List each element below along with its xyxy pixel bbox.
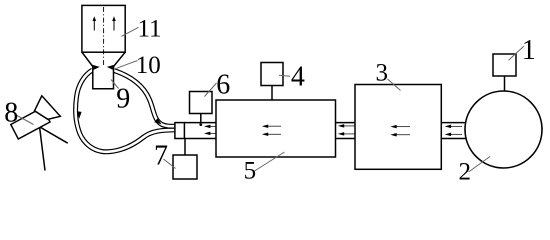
hopper up arrow right <box>112 16 116 30</box>
hose right (from tube 9 to pipe fitting) <box>114 71 176 127</box>
hopper 11 <box>82 5 125 52</box>
connector box 7 to pipe <box>184 139 186 156</box>
leader line 2 <box>469 157 491 173</box>
connector box 6 to pipe <box>200 114 202 123</box>
box 3 <box>355 85 441 170</box>
leader line 6 <box>205 83 217 97</box>
arrows between box 3 and separator 2 <box>445 125 462 136</box>
pipe bottom line segment box 3 to separator 2 <box>441 138 466 140</box>
box 1 <box>493 54 516 76</box>
leader line 7 <box>164 159 176 169</box>
svg-text:6: 6 <box>216 70 230 101</box>
pipe top line segment box 3 to separator 2 <box>441 122 466 124</box>
leader line 10 <box>117 61 138 69</box>
camera 8 body <box>11 108 50 140</box>
box 6 <box>190 92 213 114</box>
svg-text:11: 11 <box>137 16 161 43</box>
tube mouth arrow right <box>107 65 115 70</box>
leader line 9 <box>111 80 119 89</box>
arrows between box 5 and box 3 <box>338 124 355 135</box>
svg-text:4: 4 <box>291 62 305 93</box>
leader line 5 <box>255 152 285 171</box>
leader line 3 <box>388 79 401 91</box>
camera 8 tripod leg right <box>39 127 68 144</box>
svg-text:7: 7 <box>154 141 168 172</box>
tube 9 <box>93 66 114 89</box>
separator circle 2 <box>465 91 542 168</box>
svg-text:3: 3 <box>375 59 388 86</box>
hopper up arrow left <box>93 16 97 30</box>
pipe bottom line segment fitting to box 5 <box>184 138 216 140</box>
funnel 10 <box>82 52 125 66</box>
leader line 8 <box>17 116 34 125</box>
camera 8 tripod leg down <box>40 127 46 171</box>
junction dot box 6 line <box>199 123 202 126</box>
box 4 <box>261 63 283 86</box>
box 7 <box>173 155 197 179</box>
svg-text:5: 5 <box>244 158 257 185</box>
pipe top line segment fitting to box 5 <box>184 122 216 124</box>
connector box 1 to circle 2 <box>504 76 506 91</box>
svg-text:8: 8 <box>4 98 18 129</box>
leader line 11 <box>122 27 139 36</box>
svg-text:10: 10 <box>136 52 161 79</box>
box 5 <box>216 100 336 157</box>
leader line 1 <box>509 46 524 60</box>
camera 8 viewfinder <box>35 96 61 120</box>
leader line 4 <box>279 74 290 77</box>
hose right flow arrowhead <box>154 118 161 124</box>
svg-text:2: 2 <box>459 159 472 184</box>
arrows inside box 3 <box>390 125 410 137</box>
svg-text:1: 1 <box>522 35 536 66</box>
pipe top line segment box 5 to box 3 <box>336 122 356 124</box>
hopper center dash line <box>103 7 105 87</box>
hose left flow arrowhead <box>77 111 82 119</box>
arrows inside box 5 <box>262 124 281 136</box>
svg-text:9: 9 <box>116 83 130 114</box>
connector box 4 to box 5 <box>271 86 273 101</box>
hose left (from tube 9 down-left loop to pipe fitting) <box>76 70 176 152</box>
tube mouth arrow left <box>92 65 100 70</box>
pipe fitting at hose inlet <box>175 123 185 139</box>
pipe arrows before box 5 <box>204 125 219 135</box>
pipe bottom line segment box 5 to box 3 <box>336 138 356 140</box>
